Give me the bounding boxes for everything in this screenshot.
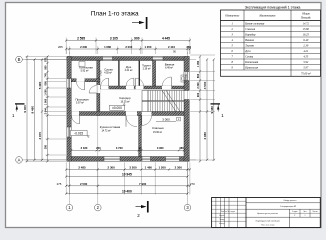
svg-text:875: 875 xyxy=(45,57,48,62)
svg-text:4 445: 4 445 xyxy=(162,37,170,41)
partition sushka dush xyxy=(118,61,119,87)
svg-text:Индивидуальный жилой дом: Индивидуальный жилой дом xyxy=(256,220,281,223)
svg-text:Туалет: Туалет xyxy=(245,45,254,48)
svg-text:А: А xyxy=(18,157,21,162)
dim row top A xyxy=(66,40,190,42)
svg-text:380: 380 xyxy=(179,146,184,150)
svg-text:1 450: 1 450 xyxy=(197,60,200,67)
door arc boiler xyxy=(77,82,85,90)
dim col left 3 xyxy=(41,60,43,160)
fixture wc toilet xyxy=(181,75,186,82)
svg-text:4 960: 4 960 xyxy=(203,132,207,140)
door arc bedroom xyxy=(142,116,152,126)
svg-text:Ванная: Ванная xyxy=(165,62,175,66)
svg-text:2 330: 2 330 xyxy=(80,45,87,49)
extension lines top xyxy=(65,38,67,55)
axis circle 3 xyxy=(184,204,191,211)
wall int boiler right xyxy=(97,61,100,82)
svg-text:5.97 м²: 5.97 м² xyxy=(76,102,84,105)
wall int kitchen bedroom xyxy=(139,116,142,157)
svg-text:2 300: 2 300 xyxy=(175,166,183,170)
dim row bottom 3 xyxy=(66,185,190,187)
dim col right 2 xyxy=(206,60,208,160)
svg-text:Спальня: Спальня xyxy=(245,28,256,31)
axis circle 2 xyxy=(95,204,102,211)
svg-text:2 000: 2 000 xyxy=(125,45,132,49)
svg-text:2 410: 2 410 xyxy=(168,45,175,49)
svg-text:260: 260 xyxy=(96,146,101,150)
svg-text:1 000: 1 000 xyxy=(45,89,48,96)
svg-text:4.21 м²: 4.21 м² xyxy=(125,69,133,72)
wall int wc bath xyxy=(153,61,156,87)
svg-text:5 490: 5 490 xyxy=(38,81,42,89)
svg-text:3 970: 3 970 xyxy=(38,132,42,140)
svg-text:Коридор: Коридор xyxy=(119,96,130,100)
section mark 1 right xyxy=(211,103,221,105)
door arc wc xyxy=(136,78,144,86)
svg-text:5.92: 5.92 xyxy=(303,61,308,64)
svg-text:1 350: 1 350 xyxy=(144,45,151,49)
svg-text:2 500: 2 500 xyxy=(80,182,88,186)
svg-text:2 485: 2 485 xyxy=(78,166,86,170)
window bottom kitchen xyxy=(104,156,120,161)
axis line 3 xyxy=(187,52,189,204)
door gap bath xyxy=(162,86,171,89)
svg-text:Архитектурные решения: Архитектурные решения xyxy=(257,212,278,215)
dim col right 3 xyxy=(213,60,215,160)
door gap boiler xyxy=(77,79,85,82)
svg-text:4 500: 4 500 xyxy=(203,81,207,89)
svg-text:14.72: 14.72 xyxy=(303,23,310,26)
svg-text:Котельная: Котельная xyxy=(244,61,259,64)
svg-text:90: 90 xyxy=(139,146,142,150)
svg-text:±0.000: ±0.000 xyxy=(112,106,122,110)
svg-text:Шифр проекта: Шифр проекта xyxy=(284,199,298,202)
svg-text:4.55: 4.55 xyxy=(303,56,308,59)
dim row bottom 1 xyxy=(66,169,190,171)
svg-text:Сушка: Сушка xyxy=(245,56,253,59)
svg-text:8 460: 8 460 xyxy=(31,106,35,114)
staircase xyxy=(142,91,184,112)
svg-text:2.39: 2.39 xyxy=(303,45,308,48)
door gap right entry xyxy=(184,91,190,100)
svg-text:10 945: 10 945 xyxy=(122,173,132,177)
window bottom kitchen 2 xyxy=(142,156,151,161)
svg-text:Душ: Душ xyxy=(126,65,132,69)
door gap hall kitchen xyxy=(72,111,80,115)
svg-text:7 900: 7 900 xyxy=(139,182,147,186)
svg-text:75.60 м²: 75.60 м² xyxy=(301,72,311,75)
svg-text:2 330: 2 330 xyxy=(81,146,88,150)
window bottom bedroom xyxy=(166,156,180,161)
window left kitchen xyxy=(67,127,72,137)
dim row top B xyxy=(66,48,190,50)
door arc bath xyxy=(162,77,171,86)
svg-text:2 644: 2 644 xyxy=(45,108,48,115)
axis line 1 xyxy=(68,52,70,204)
svg-text:9 460: 9 460 xyxy=(210,106,214,114)
svg-text:Общая: Общая xyxy=(302,12,310,15)
svg-text:Листов: Листов xyxy=(312,211,317,213)
level mark -0.015 xyxy=(70,130,87,135)
dim row bottom 2 xyxy=(66,176,187,178)
door arc entry xyxy=(175,91,184,100)
svg-text:2 220: 2 220 xyxy=(197,82,200,89)
fixture boiler xyxy=(79,62,85,67)
svg-text:Прихожая: Прихожая xyxy=(76,97,89,101)
wall exterior left xyxy=(67,57,71,162)
section mark 1 left xyxy=(15,103,25,105)
window top sushka xyxy=(103,56,113,60)
svg-text:Котельная: Котельная xyxy=(79,65,93,69)
svg-text:1 200: 1 200 xyxy=(158,166,166,170)
svg-text:3 900: 3 900 xyxy=(157,146,164,150)
svg-text:890: 890 xyxy=(45,81,48,86)
svg-text:1: 1 xyxy=(305,215,306,217)
svg-text:2 300: 2 300 xyxy=(108,166,116,170)
axis line 2 xyxy=(97,60,99,204)
svg-text:2 595: 2 595 xyxy=(77,37,85,41)
dim row bottom 4 xyxy=(66,193,187,195)
svg-text:Кухня-гостиная: Кухня-гостиная xyxy=(100,125,121,129)
svg-text:Спальня: Спальня xyxy=(152,126,164,130)
svg-text:Спецификация АР: Спецификация АР xyxy=(280,205,297,208)
svg-text:2.39 м²: 2.39 м² xyxy=(143,68,151,71)
partition dush wc xyxy=(139,61,140,87)
svg-text:Ванная: Ванная xyxy=(245,39,254,42)
svg-text:10 400: 10 400 xyxy=(122,190,132,194)
dim col left outer xyxy=(26,57,28,162)
svg-text:15.60: 15.60 xyxy=(303,28,310,31)
svg-text:265: 265 xyxy=(58,45,63,49)
svg-text:800: 800 xyxy=(197,73,200,78)
extension lines right xyxy=(190,54,215,56)
axis circle 1 xyxy=(66,204,73,211)
svg-text:4.55 м²: 4.55 м² xyxy=(104,72,112,75)
title block xyxy=(212,198,321,228)
svg-text:3 720: 3 720 xyxy=(116,146,123,150)
svg-text:16.25 м²: 16.25 м² xyxy=(120,100,129,103)
svg-text:Обозначение: Обозначение xyxy=(225,15,240,18)
svg-text:Коридор: Коридор xyxy=(244,34,256,37)
door arc hall xyxy=(89,86,97,94)
axis line B xyxy=(22,59,196,61)
door gap kitchen xyxy=(126,111,137,115)
svg-text:360: 360 xyxy=(186,45,191,49)
extension lines left inner xyxy=(46,78,67,80)
svg-text:3 000: 3 000 xyxy=(162,117,170,121)
window left hall xyxy=(67,79,72,89)
door gap dush xyxy=(126,86,134,89)
svg-text:3 105: 3 105 xyxy=(110,37,118,41)
wall exterior top xyxy=(67,57,189,61)
door arc sushka xyxy=(101,78,109,86)
svg-text:6.49: 6.49 xyxy=(303,39,308,42)
door gap wc xyxy=(136,86,144,89)
svg-text:16.25: 16.25 xyxy=(303,34,310,37)
svg-text:Сушка: Сушка xyxy=(104,67,113,71)
extension lines left xyxy=(26,56,67,58)
wall exterior right xyxy=(184,57,189,162)
svg-text:Кухня-гостиная: Кухня-гостиная xyxy=(244,23,265,26)
door arc dush xyxy=(126,78,134,86)
svg-text:9 300: 9 300 xyxy=(23,105,27,113)
dim col right inner xyxy=(199,57,201,162)
door arc kitchen xyxy=(126,116,137,127)
svg-text:Прихожая: Прихожая xyxy=(244,67,258,70)
window top bath xyxy=(153,56,164,60)
svg-text:1 460: 1 460 xyxy=(145,166,153,170)
level mark 0.000 xyxy=(110,105,125,110)
dim col left 2 xyxy=(34,60,36,160)
wall exterior bottom xyxy=(67,157,189,162)
svg-text:План 1-го этажа: План 1-го этажа xyxy=(91,11,139,18)
wall int below boiler xyxy=(71,79,100,82)
svg-text:Площадь: Площадь xyxy=(300,17,312,20)
dim row inner bottom xyxy=(71,149,184,151)
svg-text:275: 275 xyxy=(57,182,62,186)
svg-text:В: В xyxy=(18,57,21,62)
svg-text:Душ: Душ xyxy=(244,50,251,53)
door gap sushka xyxy=(101,86,109,89)
dim col left inner xyxy=(47,57,49,162)
svg-text:5.92 м²: 5.92 м² xyxy=(81,70,89,73)
svg-text:Лист: Лист xyxy=(303,211,307,213)
svg-text:Н.контр.: Н.контр. xyxy=(219,223,225,225)
svg-text:270: 270 xyxy=(190,182,195,186)
svg-text:Стадия: Стадия xyxy=(292,211,298,213)
svg-text:900: 900 xyxy=(134,37,140,41)
svg-text:5.97: 5.97 xyxy=(303,67,308,70)
svg-text:15.60 м²: 15.60 м² xyxy=(153,131,162,134)
svg-text:-0.015: -0.015 xyxy=(74,132,83,136)
svg-text:Туалет: Туалет xyxy=(142,63,152,67)
svg-text:900: 900 xyxy=(197,92,200,97)
section mark 2 top xyxy=(132,22,144,24)
svg-text:1 680: 1 680 xyxy=(104,45,111,49)
svg-text:3 200: 3 200 xyxy=(129,166,137,170)
wall int corridor top xyxy=(100,86,184,89)
svg-text:2 700: 2 700 xyxy=(186,73,188,79)
svg-text:Наименование: Наименование xyxy=(259,15,277,18)
svg-text:План 1-го этажа: План 1-го этажа xyxy=(261,224,274,226)
svg-text:900: 900 xyxy=(45,65,48,70)
svg-text:Экспликация помещений 1 этажа: Экспликация помещений 1 этажа xyxy=(245,6,301,10)
door gap hall xyxy=(97,85,101,93)
door gap bedroom xyxy=(142,111,152,115)
window right bath xyxy=(184,72,190,81)
extension lines bottom xyxy=(65,162,67,194)
svg-text:Разраб.: Разраб. xyxy=(219,215,225,217)
wall int hall right xyxy=(97,82,100,116)
axis circle B xyxy=(16,56,23,63)
svg-text:2 520: 2 520 xyxy=(101,69,103,75)
axis line A xyxy=(22,159,196,161)
svg-text:6.49 м²: 6.49 м² xyxy=(165,67,173,70)
svg-text:Провер.: Провер. xyxy=(219,219,225,221)
svg-text:380: 380 xyxy=(45,144,48,149)
svg-text:4.21: 4.21 xyxy=(303,50,308,53)
wall int corridor bottom xyxy=(71,112,184,116)
svg-text:14.72 м²: 14.72 м² xyxy=(101,129,110,132)
door arc hall kitchen xyxy=(72,116,80,124)
svg-text:745: 745 xyxy=(45,73,48,78)
svg-text:1 060: 1 060 xyxy=(45,98,48,105)
section mark 2 bottom xyxy=(136,206,146,208)
axis circle A xyxy=(16,157,23,164)
